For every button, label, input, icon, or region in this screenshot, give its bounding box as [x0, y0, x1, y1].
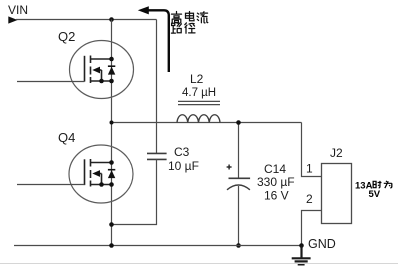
glyph dian: [186, 12, 195, 21]
wire VIN bend down to C3: [156, 20, 158, 154]
svg-text:VIN: VIN: [8, 3, 28, 17]
ground: [292, 246, 311, 265]
svg-text:330 µF: 330 µF: [257, 175, 295, 189]
wire bottom ground rail: [14, 245, 302, 247]
wire output down to J2 pin 1: [302, 123, 322, 177]
svg-text:1: 1: [306, 162, 313, 176]
node ground junction Q4: [109, 243, 114, 248]
node Q4 drain junction: [109, 160, 114, 165]
glyph wei: [384, 181, 392, 188]
diode body diode of Q2: [108, 66, 115, 74]
wire high-current path arrow: [147, 10, 169, 72]
inductor L2: [177, 115, 220, 123]
wire C14 bottom lead: [238, 186, 240, 246]
glyph lu: [171, 23, 181, 33]
node Q2 drain junction: [109, 57, 114, 62]
svg-text:C3: C3: [174, 145, 190, 159]
wire J2 pin 2 to ground: [302, 211, 322, 246]
capacitor C14 plus sign: [227, 165, 232, 170]
node C14 top junction: [236, 120, 241, 125]
capacitor C14: [227, 178, 250, 190]
svg-text:16 V: 16 V: [264, 189, 289, 203]
transistor Q4: [69, 145, 133, 203]
glyph gao: [172, 12, 182, 24]
svg-text:C14: C14: [264, 162, 286, 176]
wire Q4 gate lead: [17, 184, 85, 186]
node ground junction at GND: [299, 243, 304, 248]
wire faint bottom border: [0, 263, 398, 265]
annotation high current path text line 2 (lu jing): [171, 23, 195, 33]
svg-text:GND: GND: [308, 237, 336, 251]
svg-text:2: 2: [306, 192, 313, 206]
annotation high current path text line 1 (gao dian liu): [172, 12, 208, 24]
transistor Q2: [70, 41, 134, 99]
node C14 bottom junction: [236, 243, 241, 248]
node Q4 source junction: [109, 182, 114, 187]
node Q2 source junction: [109, 79, 114, 84]
inductor L2 core lines: [178, 100, 220, 102]
wire C14 top lead: [238, 123, 240, 179]
glyph shi: [373, 181, 381, 188]
svg-text:Q2: Q2: [58, 29, 75, 44]
node Q2 substrate junction: [99, 79, 104, 84]
svg-text:5V: 5V: [369, 189, 381, 200]
wire C3 bottom lead: [112, 159, 157, 224]
node VIN input arrow: [8, 16, 17, 23]
svg-text:10 µF: 10 µF: [168, 159, 199, 173]
svg-text:4.7 µH: 4.7 µH: [182, 87, 216, 99]
wire main vertical bus x=111.5: [111, 20, 113, 246]
wire switch node to output: [112, 122, 302, 124]
svg-text:J2: J2: [330, 146, 343, 160]
wire Q2 gate lead: [17, 81, 85, 83]
node Q4 substrate junction: [99, 182, 104, 187]
connector J2: [322, 164, 352, 224]
annotation output note shi wei (CJK): [373, 181, 392, 188]
wire VIN top rail: [16, 19, 157, 21]
diode body diode of Q4: [108, 170, 115, 178]
node switch node junction: [110, 121, 114, 125]
node junction top wire to Q2 drain: [109, 17, 114, 22]
node C3 return junction: [109, 222, 114, 227]
glyph jing: [185, 23, 195, 33]
capacitor C3: [147, 153, 167, 159]
svg-text:L2: L2: [190, 72, 204, 86]
svg-text:Q4: Q4: [58, 130, 75, 145]
glyph liu: [197, 12, 208, 23]
